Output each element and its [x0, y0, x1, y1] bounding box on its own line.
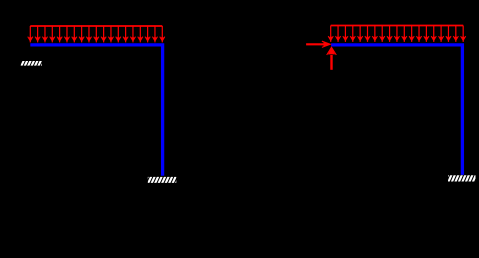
horizontal reaction force arrow H (points right at released end): [306, 41, 330, 47]
left frame: fixed support hatching at column base: [145, 176, 180, 183]
distributed load w (right frame), 19 down arrows: [328, 26, 466, 42]
right frame members: horizontal beam + right column (blue): [331, 45, 462, 175]
vertical reaction force arrow V (points up at released end): [327, 47, 337, 70]
left frame: fixed support hatching at beam left end (wall): [21, 60, 44, 66]
left frame members: horizontal beam + right column (blue): [30, 45, 162, 176]
distributed load w (left frame), 19 down arrows: [28, 26, 165, 42]
right frame: fixed support hatching at column base: [445, 175, 479, 182]
